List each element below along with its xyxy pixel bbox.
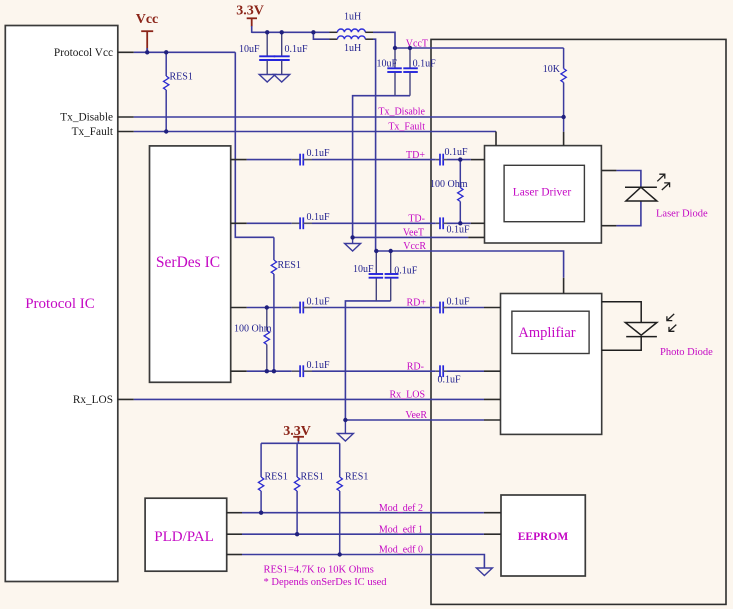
svg-text:100 Ohm: 100 Ohm: [430, 179, 468, 190]
pin SerDes TD+ stub: [231, 159, 247, 161]
svg-text:Vcc: Vcc: [136, 12, 159, 27]
node C4 tap VccT: [408, 46, 412, 50]
wire L1 out to VccT: [373, 32, 395, 48]
svg-text:VccR: VccR: [403, 241, 426, 252]
pin Amplifier VccR stub: [563, 278, 565, 294]
wire RD- right: [447, 370, 484, 372]
svg-text:0.1uF: 0.1uF: [447, 297, 471, 308]
laser diode D1: [625, 187, 657, 201]
wire VccR caps ground bus: [345, 301, 390, 420]
svg-text:0.1uF: 0.1uF: [307, 297, 331, 308]
wire Rx_LOS: [134, 398, 484, 400]
ground symbol (C2): [274, 75, 290, 83]
svg-text:0.1uF: 0.1uF: [307, 212, 331, 223]
resistor R1 RES1 pullup Tx_Fault: [164, 52, 193, 131]
photo diode incident arrow 2: [669, 325, 676, 332]
wire VccT caps ground bus: [353, 96, 410, 238]
resistor R4 100 Ohm termination RD pair: [234, 308, 272, 372]
capacitor C14 0.1uF series RD- right: [436, 365, 461, 385]
node R1 bottom on Tx_Fault: [164, 129, 168, 133]
pin laser driver output bottom stub: [601, 225, 616, 227]
node R4 top RD+: [265, 305, 269, 309]
wire TD- mid: [312, 222, 436, 224]
pin Amplifier Rx_LOS stub: [484, 398, 501, 400]
resistor R3 10K pullup Tx_Disable: [543, 48, 567, 132]
capacitor C11 0.1uF series TD+ right: [436, 147, 468, 166]
capacitor C13 0.1uF series RD+ right: [436, 297, 470, 314]
wire 3.3V stem top: [251, 26, 253, 33]
wire Mod_def 2: [242, 512, 484, 514]
ground symbol (C1): [259, 75, 275, 83]
svg-text:Laser Driver: Laser Driver: [513, 187, 572, 199]
svg-text:0.1uF: 0.1uF: [307, 360, 331, 371]
resistor R7 RES1 pullup Mod_edf 1: [294, 443, 323, 534]
svg-text:Photo Diode: Photo Diode: [660, 347, 713, 358]
pin Laser Driver TD- stub: [471, 222, 485, 224]
wire Tx_Disable: [134, 116, 564, 118]
IC U3 PLD/PAL: [145, 498, 227, 571]
svg-text:Tx_Disable: Tx_Disable: [60, 111, 113, 123]
svg-text:Rx_LOS: Rx_LOS: [73, 394, 113, 406]
node R1 top: [164, 50, 168, 54]
svg-text:Tx_Fault: Tx_Fault: [72, 126, 114, 138]
node 10K on Tx_Disable: [561, 115, 565, 119]
resistor R2 RES1 pullup RD-: [271, 237, 301, 371]
capacitor C2 0.1uF (3.3V filter): [274, 32, 308, 74]
node C5 tap VccR: [374, 249, 378, 253]
wire VeeT line: [353, 236, 469, 238]
pin Laser Driver VeeT stub: [468, 236, 484, 238]
node VeeR ground: [343, 418, 347, 422]
capacitor C1 10uF (3.3V filter): [239, 32, 275, 74]
svg-text:0.1uF: 0.1uF: [413, 59, 437, 70]
IC U2 SerDes IC: [150, 146, 231, 382]
wire VeeR line: [345, 419, 484, 421]
pin Laser Driver Tx_Fault stub: [495, 132, 497, 146]
wire Tx_Fault: [134, 131, 496, 133]
svg-text:PLD/PAL: PLD/PAL: [154, 529, 213, 545]
node C3 tap VccT: [393, 46, 397, 50]
wire VccT line: [395, 47, 564, 49]
pin Tx_Disable stub: [118, 116, 134, 118]
ground symbol Mod_edf 0: [476, 568, 492, 576]
inductor L1 1uH top: [330, 12, 374, 33]
wire RD- left: [247, 370, 292, 372]
ground symbol VeeT: [345, 237, 361, 251]
svg-text:EEPROM: EEPROM: [518, 531, 569, 543]
wire 3.3V stem bottom: [297, 437, 299, 443]
svg-text:RES1: RES1: [265, 472, 288, 483]
svg-text:Laser Diode: Laser Diode: [656, 209, 708, 220]
wire TD+ mid: [312, 159, 436, 161]
pin PLD Mod_def 2 stub: [227, 512, 242, 514]
wire 3.3V rail top: [252, 31, 314, 33]
IC U1 Protocol IC: [5, 26, 118, 582]
wire Protocol Vcc horizontal: [134, 51, 236, 53]
svg-text:Amplifiar: Amplifiar: [518, 325, 575, 341]
wire TD- right: [447, 222, 471, 224]
svg-text:3.3V: 3.3V: [283, 424, 311, 439]
wire 3.3V rail bottom: [261, 442, 340, 444]
svg-text:RES1: RES1: [278, 260, 301, 271]
node R8 on Mod_edf 0: [338, 552, 342, 556]
resistor R8 RES1 pullup Mod_edf 0: [337, 443, 368, 554]
wire RD+ right: [447, 307, 484, 309]
capacitor C3 10uF (VccT filter): [376, 48, 401, 96]
svg-text:10uF: 10uF: [239, 44, 260, 55]
wire TD- left: [247, 222, 292, 224]
svg-text:RES1: RES1: [170, 72, 193, 83]
node C2 tap: [280, 30, 284, 34]
IC U6 Amplifier: [501, 294, 602, 435]
svg-text:0.1uF: 0.1uF: [307, 148, 331, 159]
pin SerDes TD- stub: [231, 222, 247, 224]
pin Amplifier VeeR stub: [484, 419, 501, 421]
pin PLD Mod_edf 0 stub: [227, 554, 242, 556]
svg-text:100 Ohm: 100 Ohm: [234, 324, 272, 335]
resistor R6 RES1 pullup Mod_def 2: [258, 443, 287, 512]
svg-text:Rx_LOS: Rx_LOS: [389, 390, 425, 401]
wire inductor L1 feed: [313, 31, 329, 33]
svg-text:Mod_edf 1: Mod_edf 1: [379, 524, 423, 535]
power symbol 3.3V top: [247, 18, 257, 26]
svg-text:RES1=4.7K to 10K Ohms: RES1=4.7K to 10K Ohms: [264, 565, 374, 576]
svg-text:VccT: VccT: [406, 39, 428, 50]
svg-text:SerDes IC: SerDes IC: [156, 254, 220, 271]
svg-text:3.3V: 3.3V: [236, 4, 264, 19]
node 3.3V rail split: [311, 30, 315, 34]
pin Amplifier RD+ stub: [484, 307, 501, 309]
node C6 tap VccR: [389, 249, 393, 253]
pin Laser Driver TD+ stub: [471, 159, 485, 161]
svg-text:Protocol Vcc: Protocol Vcc: [54, 47, 113, 59]
pin Amplifier RD- stub: [484, 370, 501, 372]
power symbol Vcc: [141, 31, 153, 50]
photo diode incident arrow 1: [667, 314, 674, 321]
svg-text:TD-: TD-: [408, 214, 425, 225]
svg-text:Mod_def 2: Mod_def 2: [379, 503, 423, 514]
wire RD- mid: [312, 370, 436, 372]
node R4 bottom RD-: [265, 369, 269, 373]
svg-text:RD+: RD+: [406, 298, 426, 309]
pin SerDes RD- stub: [231, 370, 247, 372]
capacitor C7 0.1uF series TD+ left: [292, 148, 330, 166]
svg-text:10K: 10K: [543, 64, 561, 75]
capacitor C6 0.1uF (VccR filter): [385, 251, 418, 301]
svg-text:Tx_Disable: Tx_Disable: [378, 107, 425, 118]
wire TD+ right: [447, 159, 471, 161]
svg-text:Tx_Fault: Tx_Fault: [388, 122, 425, 133]
node R5 bottom TD-: [458, 221, 462, 225]
wire laser diode anode loop: [616, 171, 641, 188]
svg-text:0.1uF: 0.1uF: [285, 44, 309, 55]
pin Rx_LOS stub: [118, 398, 134, 400]
photo diode D2: [625, 323, 657, 337]
svg-text:RD-: RD-: [407, 361, 424, 372]
pin EEPROM Mod_edf 1 stub: [484, 533, 501, 535]
svg-text:1uH: 1uH: [344, 43, 361, 54]
wire Mod_edf 1: [242, 533, 484, 535]
wire TD+ left: [247, 159, 292, 161]
capacitor C5 10uF (VccR filter): [353, 251, 383, 301]
svg-text:VeeR: VeeR: [405, 410, 427, 421]
module boundary box (SFP transceiver outline): [431, 39, 726, 604]
svg-text:RES1: RES1: [345, 472, 368, 483]
inductor L2 1uH bottom: [330, 36, 374, 54]
svg-text:Mod_edf 0: Mod_edf 0: [379, 545, 423, 556]
svg-text:0.1uF: 0.1uF: [447, 225, 471, 236]
node VeeT ground: [350, 235, 354, 239]
capacitor C10 0.1uF series RD- left: [292, 360, 330, 377]
power symbol 3.3V bottom: [293, 437, 304, 441]
svg-text:0.1uF: 0.1uF: [445, 147, 469, 158]
svg-text:1uH: 1uH: [344, 12, 361, 23]
wire RD+ mid: [312, 307, 436, 309]
capacitor C9 0.1uF series RD+ left: [292, 297, 330, 314]
pin laser driver output top stub: [601, 170, 616, 172]
laser diode emission arrow 1: [657, 174, 665, 181]
pin PLD Mod_edf 1 stub: [227, 533, 242, 535]
capacitor C8 0.1uF series TD- left: [292, 212, 330, 229]
svg-text:Protocol IC: Protocol IC: [25, 296, 95, 312]
resistor R5 100 Ohm termination TD pair: [430, 160, 468, 224]
pin Tx_Fault stub: [118, 131, 134, 133]
svg-text:10uF: 10uF: [353, 264, 374, 275]
svg-text:0.1uF: 0.1uF: [394, 266, 418, 277]
pin Laser Driver Tx_Disable stub: [563, 132, 565, 146]
laser diode emission arrow 2: [662, 183, 670, 190]
pin Protocol Vcc stub: [118, 51, 134, 53]
node R2 bottom RD-: [272, 369, 276, 373]
wire RD+ left: [247, 307, 292, 309]
wire VccR line: [376, 251, 564, 278]
pin SerDes RD+ stub: [231, 307, 247, 309]
svg-text:* Depends onSerDes IC used: * Depends onSerDes IC used: [264, 577, 388, 588]
node R7 on Mod_edf 1: [295, 532, 299, 536]
svg-text:VeeT: VeeT: [403, 228, 424, 239]
svg-text:10uF: 10uF: [376, 59, 397, 70]
IC U5 Laser Driver: [485, 146, 602, 243]
svg-text:0.1uF: 0.1uF: [438, 375, 462, 386]
wire Mod_edf 0: [242, 555, 484, 569]
IC U4 EEPROM: [501, 495, 585, 576]
node R6 on Mod_def 2: [259, 511, 263, 515]
node Vcc tap: [145, 50, 149, 54]
pin EEPROM Mod_def 2 stub: [484, 512, 501, 514]
svg-text:TD+: TD+: [406, 150, 425, 161]
ground symbol VeeR: [337, 420, 353, 441]
wire L2 out down to VccR: [373, 39, 376, 251]
node R5 top TD+: [458, 157, 462, 161]
wire Protocol Vcc vertical down right of SerDes: [235, 52, 274, 237]
capacitor C12 0.1uF series TD- right: [436, 217, 470, 235]
node C1 tap: [265, 30, 269, 34]
capacitor C4 0.1uF (VccT filter): [403, 48, 436, 96]
svg-text:RES1: RES1: [301, 472, 324, 483]
wire inductor L2 feed: [313, 32, 329, 39]
wire Vcc stem to node: [146, 48, 148, 52]
wire laser diode cathode loop: [616, 201, 641, 226]
photo diode D2 wiring: [602, 302, 642, 351]
